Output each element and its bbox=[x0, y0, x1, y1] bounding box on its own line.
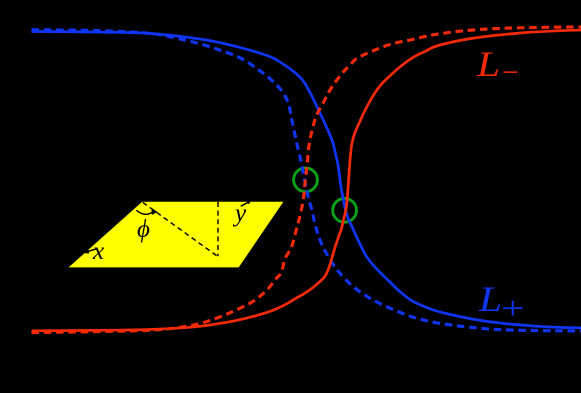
curve L+ solid blue bbox=[32, 32, 581, 328]
label L_plus bbox=[479, 281, 519, 324]
inset: phi arc arrowhead bbox=[151, 208, 157, 215]
inset: x axis arrow bbox=[86, 249, 97, 252]
inset: y axis arrow bbox=[241, 202, 249, 206]
label phi bbox=[137, 217, 150, 242]
label x bbox=[93, 239, 104, 264]
green circle marker 1 (dashed-curve crossing) bbox=[294, 168, 318, 192]
inset: phi angle arc bbox=[136, 210, 153, 214]
inset: vertical dashed line bbox=[217, 202, 219, 256]
curve L- dashed red bbox=[32, 27, 581, 333]
curve L+ dashed blue bbox=[32, 30, 581, 331]
label y bbox=[235, 201, 246, 226]
inset: diagonal dashed line bbox=[143, 202, 218, 256]
curve L- solid red bbox=[32, 30, 581, 331]
inset: yellow plane bbox=[69, 202, 284, 268]
green circle marker 2 (solid-curve crossing) bbox=[333, 198, 357, 222]
label L_minus bbox=[477, 46, 520, 88]
